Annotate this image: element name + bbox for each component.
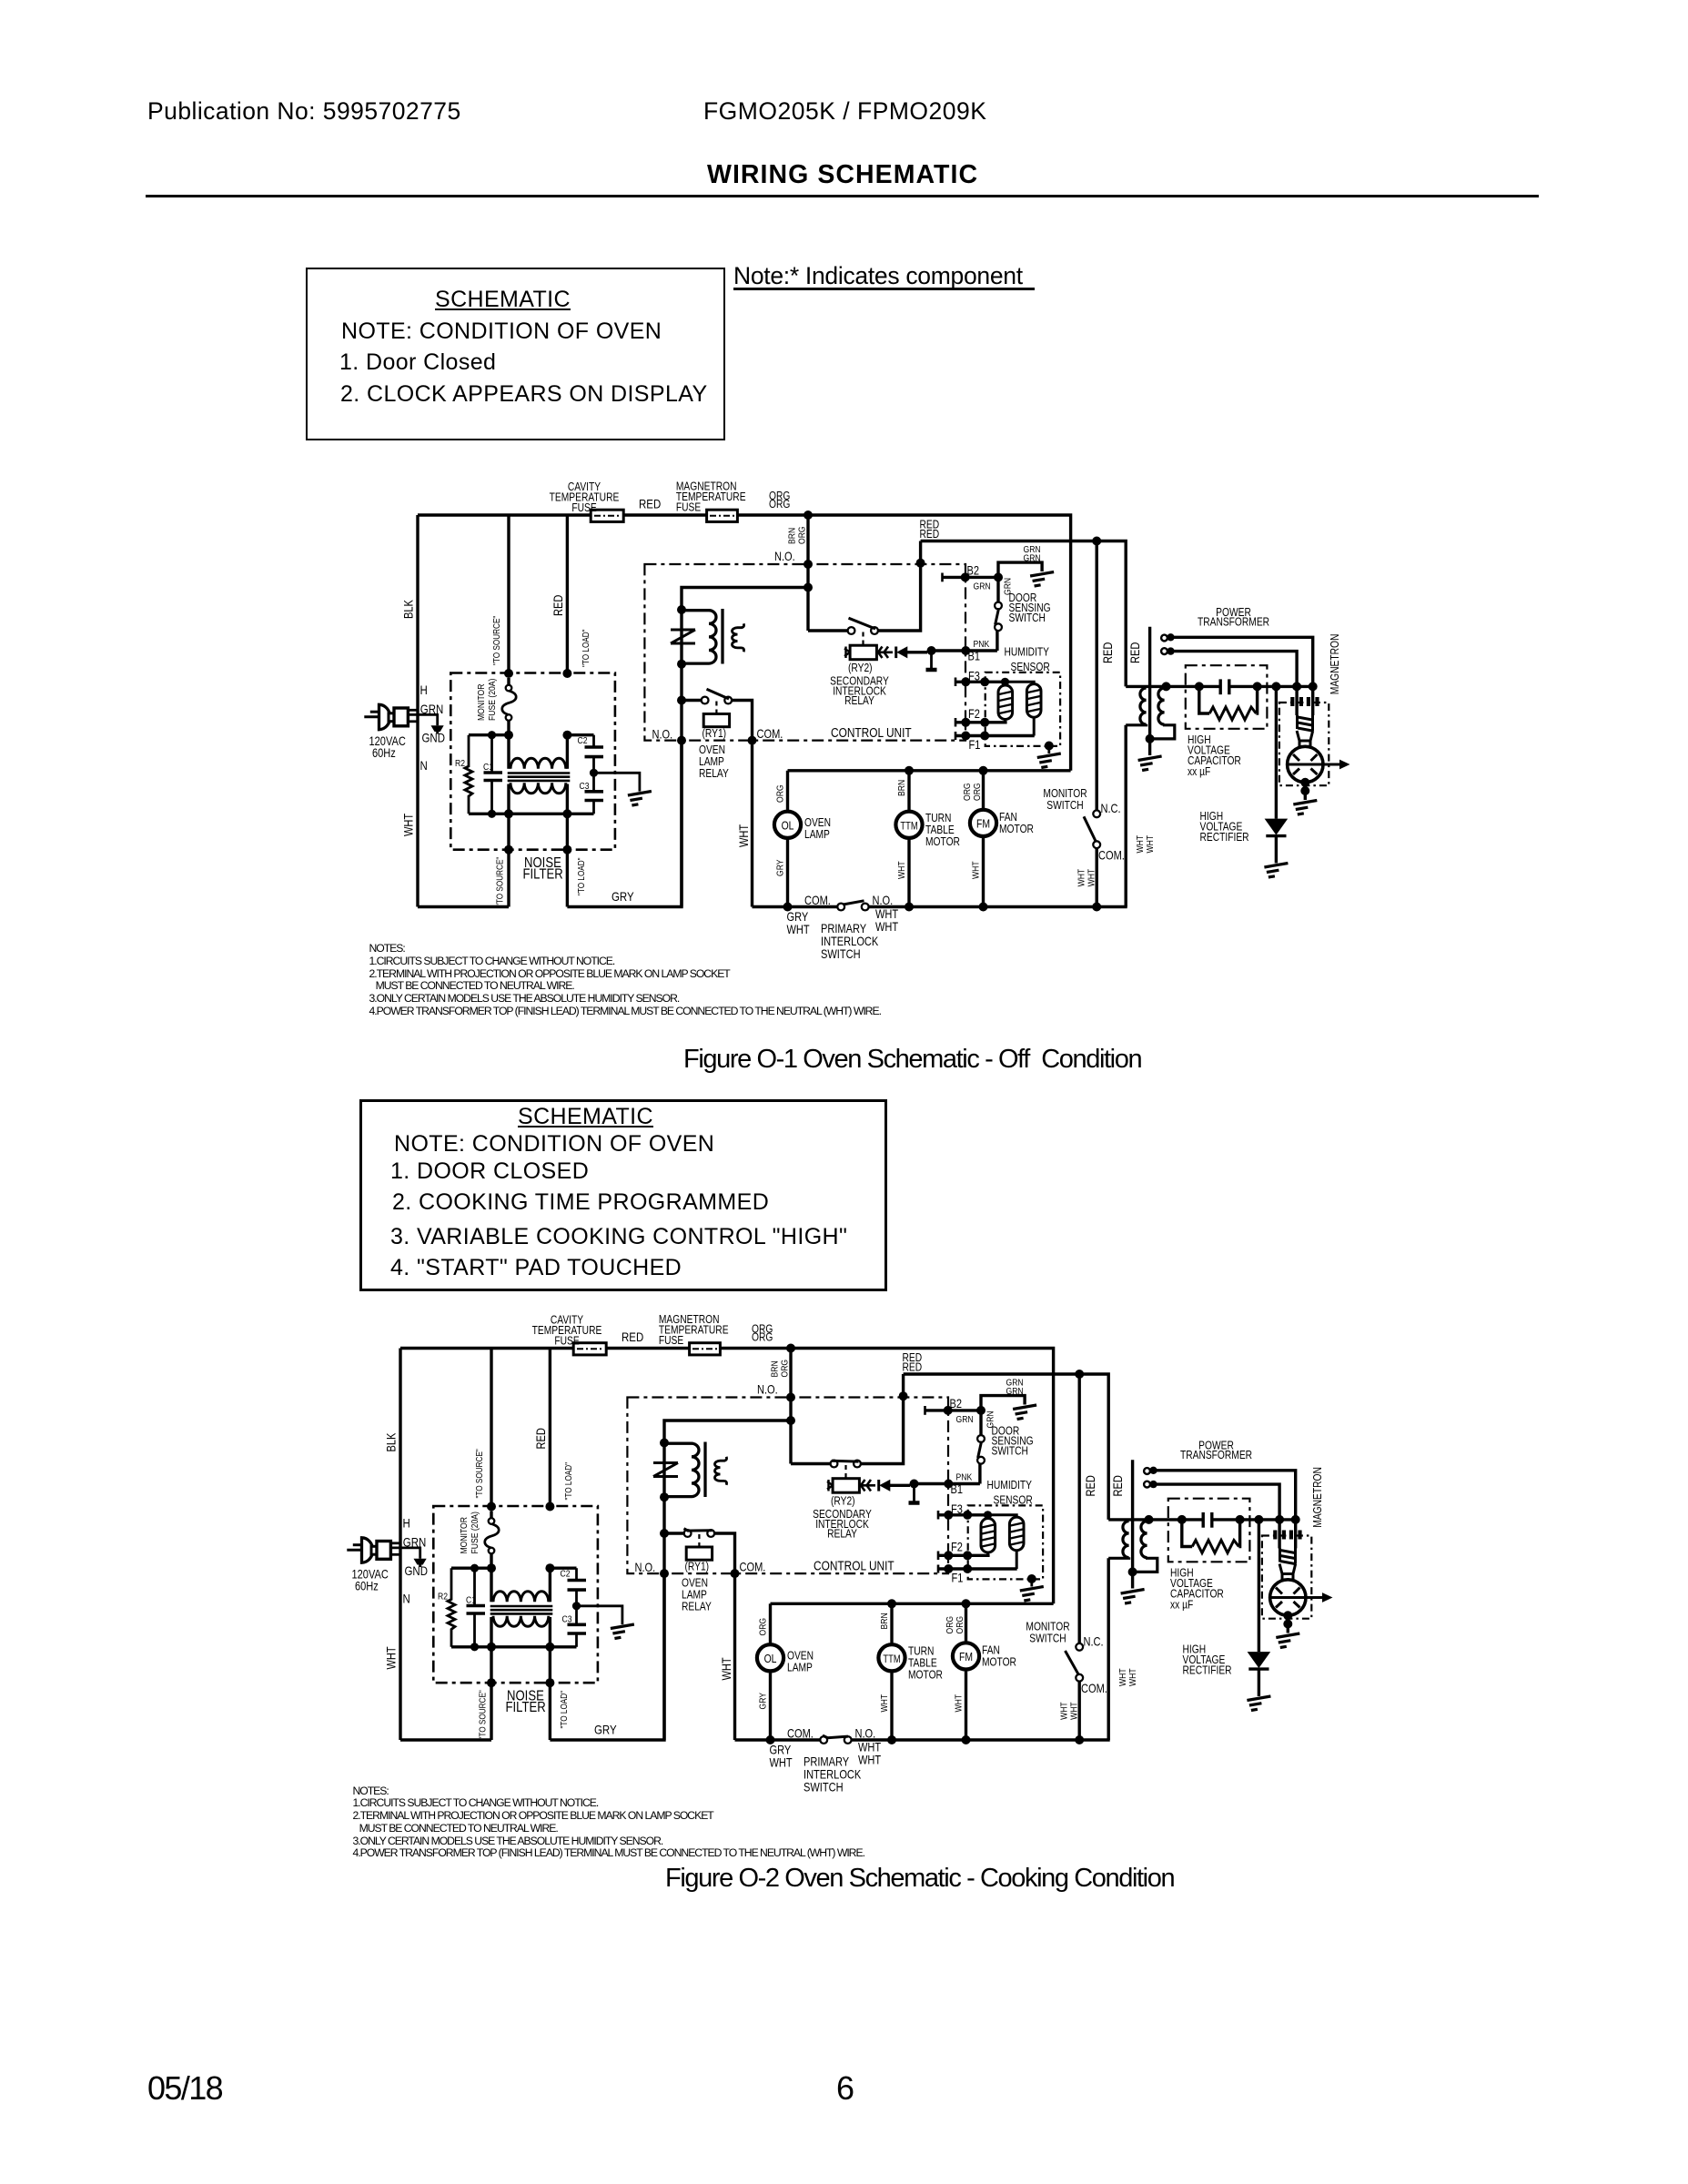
node TTM top xyxy=(887,1599,896,1608)
plug 120VAC xyxy=(370,711,380,713)
transformer center line xyxy=(1148,627,1151,755)
wire GRY run xyxy=(567,741,682,907)
node F1 b xyxy=(980,732,989,741)
svg-text:LAMP: LAMP xyxy=(682,1589,707,1601)
wire right coil bottom xyxy=(1016,1551,1018,1569)
svg-text:OVEN: OVEN xyxy=(804,817,831,829)
HV capacitor box xyxy=(1186,665,1268,729)
svg-text:"TO LOAD": "TO LOAD" xyxy=(559,1691,569,1729)
node noise filter top load xyxy=(545,1502,554,1512)
svg-text:RED: RED xyxy=(1128,642,1142,663)
svg-text:H: H xyxy=(403,1515,410,1530)
wire to-source bottom drop xyxy=(490,1647,492,1740)
svg-text:"TO SOURCE": "TO SOURCE" xyxy=(495,857,505,906)
node door top xyxy=(994,572,1003,581)
switch door lever xyxy=(996,608,999,624)
wire plug GND xyxy=(408,714,437,725)
humidity coil right xyxy=(1009,1517,1024,1551)
svg-text:GND: GND xyxy=(405,1563,429,1578)
node diode junction xyxy=(910,1480,919,1489)
svg-text:CONTROL UNIT: CONTROL UNIT xyxy=(831,725,912,740)
svg-text:GRN: GRN xyxy=(403,1534,427,1549)
svg-text:FUSE: FUSE xyxy=(571,502,597,514)
node HV b xyxy=(1236,1515,1245,1524)
svg-text:SWITCH: SWITCH xyxy=(821,947,861,961)
transformer center line xyxy=(1131,1460,1134,1588)
svg-text:GRN: GRN xyxy=(1006,1386,1024,1397)
svg-text:WHT: WHT xyxy=(770,1755,793,1769)
wire to B1 xyxy=(915,1482,980,1485)
node coil bottom xyxy=(660,1492,669,1501)
svg-text:GRN: GRN xyxy=(1024,553,1041,564)
magnetron tube xyxy=(1288,746,1323,782)
svg-text:B2: B2 xyxy=(950,1397,963,1410)
svg-text:WHT: WHT xyxy=(401,813,415,836)
wire WHT WHT lower xyxy=(1124,725,1127,907)
switch RY1 lever xyxy=(707,689,730,699)
wire humidity gnd xyxy=(1047,746,1050,754)
control transformer coil xyxy=(664,1443,699,1496)
svg-text:RELAY: RELAY xyxy=(827,1529,857,1541)
svg-text:MOTOR: MOTOR xyxy=(982,1657,1016,1669)
magnetron feedthrough R xyxy=(1294,1520,1297,1549)
control unit box xyxy=(627,1398,948,1574)
node FM bus xyxy=(962,1735,971,1744)
svg-text:WHT: WHT xyxy=(858,1740,882,1754)
magnetron feedthrough R xyxy=(1311,686,1314,715)
wire left coil links xyxy=(507,735,510,769)
RY2 break symbol xyxy=(878,647,883,659)
node magnetron bottom xyxy=(1283,1611,1292,1620)
transformer secondary xyxy=(1141,1522,1147,1558)
svg-text:TRANSFORMER: TRANSFORMER xyxy=(1198,617,1269,629)
ground humidity xyxy=(1020,1587,1044,1602)
svg-text:WHT: WHT xyxy=(1127,1668,1138,1686)
wire left coil bottom xyxy=(986,1552,989,1555)
svg-text:WHT: WHT xyxy=(858,1753,882,1766)
wire to-source bottom drop xyxy=(507,814,510,906)
wire bottom left U xyxy=(418,905,509,908)
svg-text:RELAY: RELAY xyxy=(682,1601,712,1613)
header model numbers xyxy=(703,97,986,126)
wire relay branch xyxy=(682,588,808,907)
wire left vertical BLK/WHT xyxy=(399,1349,401,1741)
wire RED RED xyxy=(904,1374,1109,1520)
fan motor FM xyxy=(982,771,985,810)
node magnetron bottom xyxy=(1300,778,1309,787)
svg-text:SWITCH: SWITCH xyxy=(1009,612,1046,624)
svg-text:LAMP: LAMP xyxy=(804,829,830,841)
stub terminal xyxy=(930,651,933,669)
node magnetron bottom2 xyxy=(1300,786,1309,795)
svg-text:RED: RED xyxy=(534,1428,548,1449)
relay coil RY1 xyxy=(686,1547,712,1560)
node F3 c xyxy=(984,1511,992,1519)
svg-text:COM.: COM. xyxy=(740,1560,766,1573)
svg-text:N: N xyxy=(403,1591,410,1605)
ground transformer xyxy=(1121,1590,1145,1604)
node bottom left xyxy=(487,1643,496,1652)
svg-text:"TO SOURCE": "TO SOURCE" xyxy=(491,616,501,665)
wire door bottom link xyxy=(978,1464,981,1484)
svg-text:RED: RED xyxy=(1084,1475,1097,1496)
svg-text:FUSE: FUSE xyxy=(554,1336,580,1348)
svg-text:WHT: WHT xyxy=(971,861,982,879)
svg-text:INTERLOCK: INTERLOCK xyxy=(821,935,879,948)
node COM RY1 xyxy=(731,1569,740,1578)
svg-text:ORG: ORG xyxy=(769,499,790,511)
switch RY1 lever xyxy=(684,1529,713,1531)
humidity coil left xyxy=(981,1519,996,1553)
svg-text:GRY: GRY xyxy=(612,889,634,904)
wire between fuses (RED) xyxy=(606,1347,690,1350)
node humidity gnd xyxy=(1045,742,1054,751)
turntable motor TTM xyxy=(907,771,910,812)
node HV rect xyxy=(1271,682,1280,691)
surge arrestor xyxy=(653,1461,678,1464)
wire HV line xyxy=(1126,685,1220,688)
wire right coil bottom xyxy=(1033,717,1036,735)
magnetron feedthrough L xyxy=(1295,686,1298,715)
magnetron tube xyxy=(1270,1580,1306,1615)
node N.O. RY1 xyxy=(677,736,686,745)
wire after magnetron fuse (ORG) to corner xyxy=(720,1349,1054,1604)
wire HV line xyxy=(1108,1518,1203,1521)
node HV a xyxy=(1178,1515,1187,1524)
node B2 xyxy=(944,1406,953,1415)
magnetron filament coil xyxy=(1298,715,1313,731)
wire F3 xyxy=(938,1513,988,1516)
resistor R2 xyxy=(448,1568,455,1647)
humidity coil right xyxy=(1026,684,1041,718)
node TTM bus xyxy=(887,1735,896,1744)
box1 SCHEMATIC heading xyxy=(435,287,571,313)
svg-text:TABLE: TABLE xyxy=(925,824,955,836)
node F3 c xyxy=(1001,678,1009,686)
node COM top xyxy=(899,1391,908,1400)
node top junction xyxy=(804,511,813,520)
note: indicates component xyxy=(733,262,1023,290)
switch RY2 lever xyxy=(832,1460,859,1463)
node coil top xyxy=(660,1439,669,1448)
svg-text:ORG: ORG xyxy=(797,526,808,544)
node coil top xyxy=(677,605,686,614)
diode D1 xyxy=(895,647,897,659)
wire door upper xyxy=(996,577,999,602)
svg-text:GRY: GRY xyxy=(594,1722,617,1736)
svg-text:WHT: WHT xyxy=(720,1657,733,1681)
wire top horizontal (BLK to cavity fuse) xyxy=(418,513,591,516)
svg-text:(RY1): (RY1) xyxy=(685,1562,710,1573)
svg-text:GRY: GRY xyxy=(787,910,809,924)
svg-text:TURN: TURN xyxy=(925,813,951,824)
svg-text:N.C.: N.C. xyxy=(1084,1634,1104,1648)
HV rectifier xyxy=(1275,686,1278,818)
wire TO SOURCE drop xyxy=(490,1349,492,1507)
node N.O. RY1 xyxy=(660,1569,669,1578)
svg-text:"TO LOAD": "TO LOAD" xyxy=(576,857,586,895)
header publication number xyxy=(147,97,461,126)
node F2 a xyxy=(961,718,970,727)
svg-text:BLK: BLK xyxy=(384,1432,398,1452)
svg-text:FM: FM xyxy=(959,1651,973,1663)
svg-text:RELAY: RELAY xyxy=(699,768,729,780)
filament wire top xyxy=(1151,1471,1296,1520)
wire junction drop xyxy=(806,515,809,631)
wire FM bottom xyxy=(982,836,985,907)
svg-text:FUSE (20A): FUSE (20A) xyxy=(470,1512,480,1553)
noise transformer core xyxy=(508,772,571,774)
node monitor feed xyxy=(1075,1370,1084,1379)
wire B2 to door xyxy=(965,576,998,579)
wire between fuses (RED) xyxy=(623,513,707,516)
svg-text:OVEN: OVEN xyxy=(787,1651,814,1663)
svg-text:SWITCH: SWITCH xyxy=(1029,1633,1066,1645)
switch monitor xyxy=(1093,810,1100,817)
node C1 top xyxy=(488,731,496,739)
node filament L xyxy=(1275,1515,1284,1524)
wire bus right xyxy=(852,1738,1110,1741)
fuse cavity temperature xyxy=(591,510,623,521)
wire F2 xyxy=(955,721,1007,723)
node monitor feed xyxy=(1092,537,1101,546)
relay coil RY2 xyxy=(833,1479,859,1493)
svg-text:C2: C2 xyxy=(578,735,588,746)
node FM top xyxy=(979,766,988,775)
wire C2C3 to ground xyxy=(577,1606,622,1624)
capacitor C1 xyxy=(473,1568,476,1605)
wire monitor lower xyxy=(1095,848,1097,906)
svg-text:GND: GND xyxy=(422,730,446,744)
ground transformer xyxy=(1138,756,1162,771)
magnetron box xyxy=(1279,703,1329,785)
svg-text:RED: RED xyxy=(920,529,940,541)
wire COM riser xyxy=(902,1374,905,1396)
wire noise bottom rail xyxy=(469,813,594,815)
svg-text:N.C.: N.C. xyxy=(1101,802,1121,815)
wire TO LOAD (RED) drop xyxy=(566,515,569,673)
svg-text:OL: OL xyxy=(764,1653,777,1665)
node secondary top xyxy=(1145,1515,1154,1524)
node F2 b xyxy=(963,1551,972,1560)
wire C2 top rail xyxy=(550,1566,576,1569)
svg-text:WHT: WHT xyxy=(787,923,811,936)
node coil bottom xyxy=(677,660,686,669)
wire monitor lower xyxy=(1077,1682,1080,1740)
magnetron filament coil xyxy=(1280,1549,1296,1564)
svg-text:N.O.: N.O. xyxy=(855,1726,876,1740)
svg-text:B1: B1 xyxy=(951,1482,964,1496)
ground HV rectifier xyxy=(1264,864,1288,878)
svg-text:HUMIDITY: HUMIDITY xyxy=(1005,647,1050,659)
box2 line 4 xyxy=(390,1255,682,1281)
node to-load mid xyxy=(545,1563,554,1572)
ground GRN xyxy=(1013,1405,1036,1420)
wire RY2 right xyxy=(861,1398,904,1464)
wire noise top rail xyxy=(451,1566,491,1569)
svg-text:MONITOR: MONITOR xyxy=(476,683,487,721)
node C2-C3 xyxy=(590,769,598,777)
wire motor bus xyxy=(771,1603,1054,1605)
node OL bus xyxy=(783,903,793,912)
surge arrestor xyxy=(671,629,695,632)
RY2 break symbol xyxy=(861,1480,865,1491)
svg-text:H: H xyxy=(420,682,428,697)
node HV a xyxy=(1195,682,1204,691)
svg-text:RED: RED xyxy=(639,496,661,511)
turntable motor TTM xyxy=(890,1603,893,1644)
node bottom right xyxy=(545,1643,554,1652)
svg-text:GRN: GRN xyxy=(974,581,991,592)
wire motor bus xyxy=(788,769,1071,772)
node FM top xyxy=(962,1599,971,1608)
svg-text:FILTER: FILTER xyxy=(523,866,563,882)
wire to-load bottom drop xyxy=(566,814,569,906)
svg-text:RED: RED xyxy=(903,1362,923,1374)
wire door upper xyxy=(979,1410,982,1435)
svg-text:xx µF: xx µF xyxy=(1170,1599,1193,1611)
fuse magnetron temperature xyxy=(707,510,738,521)
svg-text:COM.: COM. xyxy=(1098,848,1125,862)
svg-text:(RY2): (RY2) xyxy=(848,662,873,674)
wire after magnetron fuse (ORG) to corner xyxy=(737,515,1071,771)
wire bus right xyxy=(869,905,1127,908)
node monitor bus xyxy=(1092,903,1101,912)
ground magnetron xyxy=(1293,801,1317,815)
svg-text:FUSE: FUSE xyxy=(659,1335,684,1347)
noise filter box xyxy=(433,1506,598,1683)
node secondary top xyxy=(1162,682,1171,691)
svg-text:N: N xyxy=(420,758,428,773)
wire F1 xyxy=(955,734,1035,737)
switch monitor xyxy=(1076,1643,1083,1651)
noise transformer core xyxy=(490,1605,553,1608)
node top junction xyxy=(786,1344,795,1353)
svg-text:TABLE: TABLE xyxy=(908,1658,937,1670)
wire bus left xyxy=(753,905,838,908)
svg-text:ORG: ORG xyxy=(758,1618,769,1636)
HV rectifier xyxy=(1258,1520,1260,1652)
box2 line 2 xyxy=(392,1189,769,1216)
svg-text:OVEN: OVEN xyxy=(699,744,725,756)
svg-text:OL: OL xyxy=(782,819,794,832)
caption figure O-1 xyxy=(683,1045,1141,1075)
wire secondary bottom step xyxy=(1133,1557,1157,1572)
plug 120VAC xyxy=(353,1543,363,1546)
switch RY2 contacts xyxy=(848,627,855,634)
svg-text:F1: F1 xyxy=(969,738,981,752)
svg-text:"TO LOAD": "TO LOAD" xyxy=(563,1462,573,1501)
box1 line 2 xyxy=(340,381,708,408)
svg-text:N.O.: N.O. xyxy=(757,1382,778,1396)
magnetron anode arrow xyxy=(1286,763,1339,766)
noise transformer lower coil xyxy=(510,783,566,794)
motor bus left drop xyxy=(786,771,789,812)
svg-text:C3: C3 xyxy=(562,1614,572,1625)
node COM top xyxy=(916,559,925,568)
control transformer core xyxy=(703,1442,706,1498)
fuse cavity temperature xyxy=(573,1343,606,1355)
node secondary return xyxy=(1146,734,1155,743)
wire WHT drop xyxy=(751,741,753,907)
wire RY2 left xyxy=(808,629,848,632)
svg-text:WHT: WHT xyxy=(1145,835,1156,854)
diode D1 xyxy=(877,1480,880,1491)
svg-text:PRIMARY: PRIMARY xyxy=(821,922,866,935)
node box bottom load xyxy=(545,1678,554,1687)
node noise filter top load xyxy=(562,669,571,678)
node monitor bus xyxy=(1075,1735,1084,1744)
node F2 a xyxy=(944,1551,953,1560)
figure O-1 oven schematic (off condition) xyxy=(364,481,1349,962)
wire GRY run xyxy=(550,1573,664,1740)
svg-text:"TO LOAD": "TO LOAD" xyxy=(581,629,591,667)
wire RY1 right xyxy=(732,701,752,741)
node OL bus xyxy=(766,1735,775,1744)
svg-text:RECTIFIER: RECTIFIER xyxy=(1183,1665,1232,1677)
noise filter box xyxy=(450,673,615,850)
svg-text:"TO SOURCE": "TO SOURCE" xyxy=(478,1690,488,1739)
control transformer coil xyxy=(682,611,716,663)
filament wire bottom xyxy=(1168,652,1297,687)
schematic note box 2 xyxy=(359,1099,887,1291)
svg-text:LAMP: LAMP xyxy=(699,756,724,768)
svg-text:RED: RED xyxy=(551,595,565,616)
magnetron box xyxy=(1262,1536,1311,1619)
wire B2 stub xyxy=(925,1409,948,1411)
svg-text:COM.: COM. xyxy=(804,894,831,907)
svg-text:MOTOR: MOTOR xyxy=(908,1670,943,1682)
svg-text:R2: R2 xyxy=(455,758,465,769)
wire FM bottom xyxy=(965,1669,967,1740)
wire WHT WHT lower xyxy=(1107,1558,1109,1740)
humidity box xyxy=(986,672,1060,746)
node C1 top xyxy=(470,1564,479,1572)
noise transformer upper coil xyxy=(510,758,566,769)
node F3 a xyxy=(944,1511,953,1520)
switch RY2 contacts xyxy=(831,1461,838,1468)
box1 line 1 xyxy=(339,349,496,376)
node F1 a xyxy=(944,1564,953,1573)
wire plug N xyxy=(390,1553,400,1556)
wire RED RED xyxy=(921,541,1127,687)
node door top xyxy=(976,1406,986,1415)
ground noise filter xyxy=(628,792,652,806)
node F2 b xyxy=(980,718,989,727)
ground GRN xyxy=(1030,572,1054,587)
svg-text:MOTOR: MOTOR xyxy=(925,836,960,848)
svg-text:N.O.: N.O. xyxy=(774,550,795,563)
RY2 left connector xyxy=(827,1481,833,1485)
svg-text:MOTOR: MOTOR xyxy=(999,824,1034,835)
svg-text:RELAY: RELAY xyxy=(844,695,874,707)
wire left coil links xyxy=(490,1568,492,1602)
ground noise filter xyxy=(611,1624,634,1639)
RY2 left connector xyxy=(844,649,850,652)
wire plug H xyxy=(390,1542,400,1544)
filament winding circles xyxy=(1161,635,1167,642)
noise transformer lower coil xyxy=(493,1616,549,1627)
switch RY1 contacts xyxy=(702,697,709,704)
wire TTM bottom xyxy=(890,1671,893,1740)
wire junction drop xyxy=(789,1349,792,1464)
node C2-C3 xyxy=(572,1602,581,1610)
node F3 b xyxy=(963,1511,972,1520)
capacitor C3 xyxy=(575,1606,578,1625)
svg-text:SWITCH: SWITCH xyxy=(804,1780,844,1794)
svg-text:FUSE: FUSE xyxy=(676,502,702,514)
wire TO LOAD (RED) drop xyxy=(549,1349,551,1507)
